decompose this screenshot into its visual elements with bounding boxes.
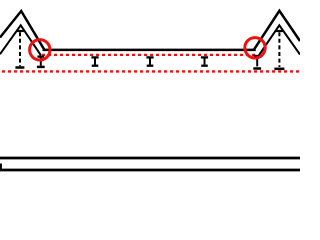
left crossbar (top of dashed post) xyxy=(16,30,24,32)
mid clip I-symbol 2 xyxy=(146,57,153,65)
mid clip I-symbol 3 xyxy=(201,57,208,65)
red circle right xyxy=(245,38,265,58)
right eave support stem xyxy=(256,57,258,67)
upper red dashed line (deck membrane) xyxy=(42,54,258,56)
left eave support stem xyxy=(40,57,42,66)
left eave support cap xyxy=(37,55,44,57)
right eave support cap xyxy=(254,55,261,57)
deck top line with left and right roof slopes (outer profile) xyxy=(0,11,300,50)
bottom beam left end cap xyxy=(0,164,2,171)
right post foot xyxy=(274,68,284,71)
bottom beam bottom line xyxy=(0,169,300,172)
right inner chevron (inner roof outline to eave post) xyxy=(259,25,300,55)
right dashed vertical post xyxy=(278,32,280,67)
right eave support foot xyxy=(253,67,261,70)
red circle left (bearing detail callout) xyxy=(30,40,50,60)
bottom beam top line xyxy=(0,157,300,160)
left inner chevron (inner roof outline to eave post) xyxy=(0,25,41,55)
lower red dashed line (ceiling membrane) xyxy=(0,70,300,72)
right crossbar (top of dashed post) xyxy=(276,30,284,32)
left eave support foot xyxy=(37,66,45,69)
left dashed vertical post xyxy=(19,32,21,66)
left post foot xyxy=(15,66,24,69)
mid clip I-symbol 1 xyxy=(91,57,98,65)
